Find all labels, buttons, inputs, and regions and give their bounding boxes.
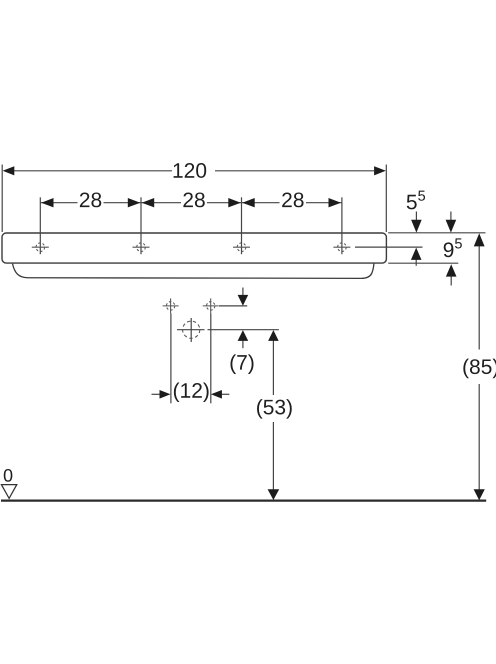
label 9.5 sup [455,238,462,248]
arrow 53 down [268,489,280,500]
extension line hole 1 [39,197,41,254]
label (53) [257,399,292,419]
arrow 120 right [374,166,386,175]
label (12) [174,382,209,402]
small hole mark A [163,298,179,313]
mounting hole mark 3 [233,243,250,252]
mounting hole mark 2 [133,243,150,252]
arrow 28c right [329,198,342,207]
label (7) [230,354,253,374]
floor line [1,500,486,502]
arrow 28b right [228,198,241,207]
reference line basin top edge extended right [388,232,485,234]
extension line hole B for 12 [210,313,212,403]
label 5.5 base [407,195,417,210]
arrow 28b left [142,198,155,207]
mounting hole mark 1 [32,243,49,252]
reference line hole axis extended right [355,246,423,248]
label 28 first [80,192,101,207]
extension line left of 120 [1,165,3,233]
dimension tail 12 right [221,393,229,395]
reference line small holes axis [219,305,247,307]
dimension line 85 [478,246,480,350]
arrow 85 up [474,233,485,246]
dimension line 120 [14,170,173,172]
dimension tail 7 bottom [242,340,244,349]
dimension line 28 third span [242,202,280,204]
arrow 28a right [128,198,141,207]
small hole mark B [203,298,219,313]
dimension tail 7 top [242,288,244,298]
extension line hole 3 [241,197,243,254]
dimension line 28 first span [40,202,77,204]
washbasin slab outline [2,233,386,263]
datum triangle [1,485,16,499]
mounting hole mark 4 [333,243,350,252]
extension line hole 4 [341,197,343,254]
label 0 datum [4,469,13,482]
dimension tail 9.5 top [450,212,452,222]
arrow 28c left [242,198,255,207]
arrow 9.5 up [446,264,457,276]
label 28 third [282,192,303,207]
label (85) [463,359,496,379]
arrow 7 down [238,295,249,306]
reference line slab bottom edge extended right [388,262,458,264]
arrow 9.5 down [446,220,457,233]
label 120 [174,163,207,178]
label 5.5 sup [418,191,425,201]
dimension tail 5.5 bottom [415,259,417,266]
reference line tap hole axis [208,329,279,331]
extension line right of 120 [385,165,387,233]
arrow 12 left pointing right [160,390,171,399]
label 9.5 base [444,242,454,257]
dimension tail 12 left [152,393,161,395]
arrow 120 left [3,166,15,175]
label 28 second [183,192,204,207]
dimension line 28 second span [141,202,181,204]
dimension tail 5.5 top [415,212,417,222]
arrow 85 down [474,489,485,500]
arrow 7 up [238,330,249,341]
dimension line 53 [272,340,274,396]
arrow 5.5 down [411,220,422,233]
tap hole mark [177,318,205,342]
arrow 28a left [41,198,53,207]
arrow 5.5 up [411,248,422,260]
washbasin bowl outline [13,264,374,279]
extension line hole A for 12 [170,313,172,403]
arrow 12 right pointing left [211,390,222,399]
arrow 53 up [268,330,279,341]
dimension tail 9.5 bottom [450,276,452,286]
extension line hole 2 [140,197,142,254]
